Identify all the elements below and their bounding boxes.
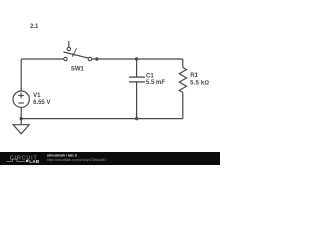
svg-text:C1: C1 [146, 73, 154, 79]
svg-text:V1: V1 [33, 93, 41, 99]
svg-text:2.1: 2.1 [30, 24, 39, 30]
svg-text:6.55 V: 6.55 V [33, 100, 50, 106]
svg-text:http://circuitlab.com/c/a2y478: http://circuitlab.com/c/a2y478nkq5k7 [47, 158, 107, 162]
svg-text:5.5 mF: 5.5 mF [146, 80, 165, 86]
svg-text:SW1: SW1 [71, 67, 85, 73]
svg-text:5.5 kΩ: 5.5 kΩ [190, 81, 209, 87]
svg-text:R1: R1 [190, 73, 198, 79]
svg-text:LAB: LAB [29, 159, 40, 164]
